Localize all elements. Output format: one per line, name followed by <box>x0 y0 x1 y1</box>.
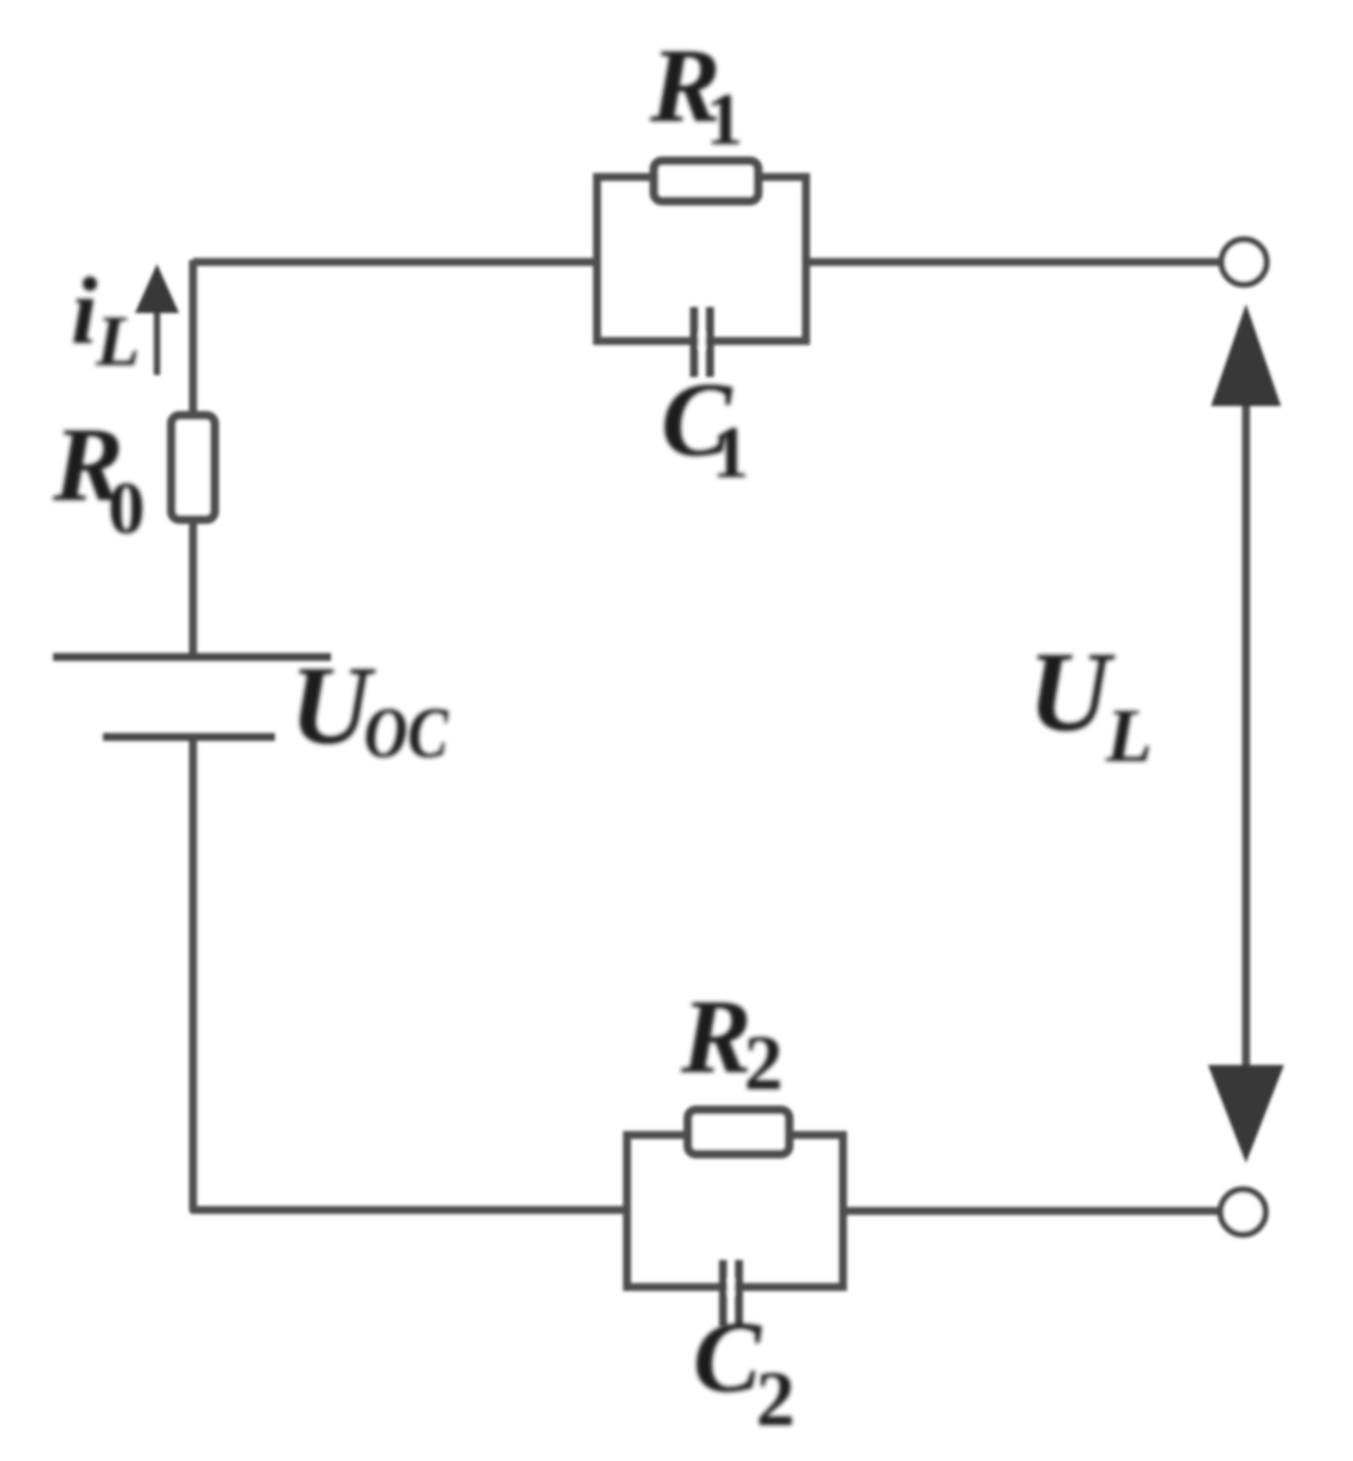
i_L arrowhead <box>135 264 179 313</box>
wire R0 to battery <box>189 520 197 657</box>
svg-text:U: U <box>1028 628 1116 755</box>
i_L arrow shaft <box>154 305 161 375</box>
svg-text:L: L <box>95 301 140 381</box>
U_L arrowhead down <box>1208 1065 1284 1163</box>
wire top-left horizontal <box>193 258 597 266</box>
capacitor C2 plates <box>723 1260 739 1326</box>
svg-text:R: R <box>680 978 752 1095</box>
wire left vertical upper <box>189 260 197 414</box>
capacitor C1 plates <box>694 307 710 377</box>
resistor R2 <box>688 1110 789 1154</box>
capacitor C2 gap <box>728 1279 735 1295</box>
resistor R0 <box>172 416 215 520</box>
wire bottom-right horizontal <box>843 1207 1219 1215</box>
capacitor C1 gap <box>699 333 706 349</box>
svg-text:1: 1 <box>712 412 749 494</box>
svg-text:2: 2 <box>756 1355 795 1442</box>
battery U_OC short plate <box>103 733 275 741</box>
U_L arrow shaft <box>1242 404 1250 1066</box>
wire bottom-left horizontal <box>191 1206 630 1214</box>
battery U_OC long plate <box>53 653 331 661</box>
terminal top <box>1222 240 1267 285</box>
terminal bottom <box>1221 1190 1266 1235</box>
RC block 1 outer box <box>597 177 806 341</box>
svg-text:1: 1 <box>706 79 743 161</box>
svg-text:i: i <box>71 258 97 364</box>
svg-text:0: 0 <box>108 468 145 550</box>
wire battery to bottom <box>189 735 197 1212</box>
U_L arrowhead up <box>1211 304 1281 406</box>
svg-text:2: 2 <box>744 1019 783 1106</box>
svg-text:OC: OC <box>364 693 449 773</box>
resistor R1 <box>654 161 758 201</box>
svg-text:L: L <box>1105 694 1152 778</box>
wire top-right horizontal <box>806 258 1220 266</box>
RC block 2 outer box <box>627 1135 843 1287</box>
svg-text:C: C <box>693 1301 762 1414</box>
